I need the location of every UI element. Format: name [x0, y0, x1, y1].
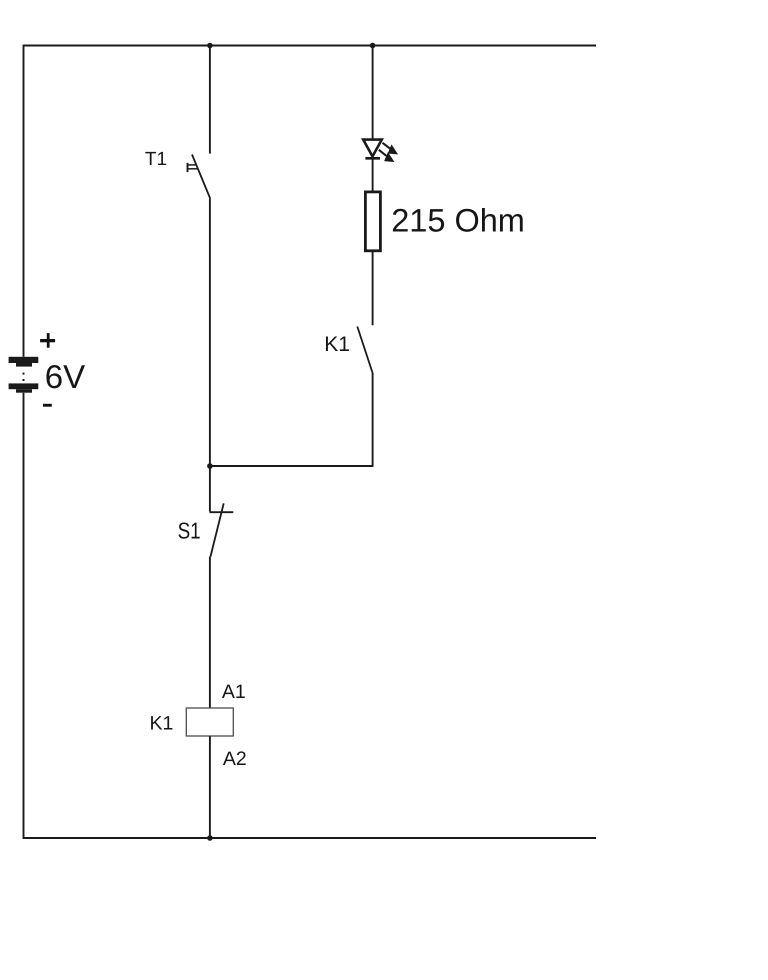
svg-text:K1: K1	[150, 712, 174, 734]
wire horizontal connector between branches	[210, 465, 373, 467]
resistor R1 body	[365, 192, 380, 251]
battery plus label	[40, 333, 55, 348]
svg-text:K1: K1	[324, 333, 350, 356]
wire left vertical (top rail to battery)	[23, 45, 25, 357]
LED D1 triangle	[363, 140, 382, 157]
LED D1 cathode bar	[365, 157, 380, 160]
wire T1 to junction node	[209, 199, 211, 467]
switch S1 blade	[211, 503, 224, 556]
wire junction to S1	[209, 466, 211, 512]
svg-text:A2: A2	[223, 748, 247, 770]
battery B1 6V	[9, 357, 39, 393]
relay contact K1 blade	[357, 327, 372, 373]
wire K1 contact to horizontal connector	[372, 372, 374, 467]
wire resistor to K1 contact	[372, 252, 374, 325]
node junction dot bottom rail	[207, 835, 213, 841]
switch S1 fixed contact bar	[210, 511, 234, 513]
node junction dot top T1 branch	[207, 43, 213, 49]
wire T1 branch from top rail	[209, 46, 211, 154]
node junction dot top LED branch	[370, 43, 376, 49]
wire coil to bottom rail	[209, 736, 211, 838]
wire LED branch from top rail	[372, 46, 374, 140]
pushbutton T1 blade	[192, 155, 210, 199]
svg-text:S1: S1	[178, 518, 201, 544]
battery minus label	[43, 404, 52, 407]
node junction dot at S1 top	[207, 463, 213, 469]
wire left vertical (battery to bottom rail)	[23, 393, 25, 839]
relay coil K1 body	[186, 708, 233, 736]
svg-text:A1: A1	[222, 681, 246, 703]
wire bottom horizontal rail	[24, 837, 597, 839]
wire LED to resistor	[372, 158, 374, 190]
svg-text:T1: T1	[145, 149, 167, 170]
LED D1 light arrow 1	[383, 143, 398, 154]
svg-text:215 Ohm: 215 Ohm	[391, 203, 525, 239]
svg-text:6V: 6V	[45, 358, 85, 395]
wire top horizontal rail	[24, 45, 597, 47]
pushbutton T1 actuator	[188, 163, 198, 172]
LED D1 light arrow 2	[379, 150, 394, 162]
wire S1 to relay coil	[209, 557, 211, 709]
